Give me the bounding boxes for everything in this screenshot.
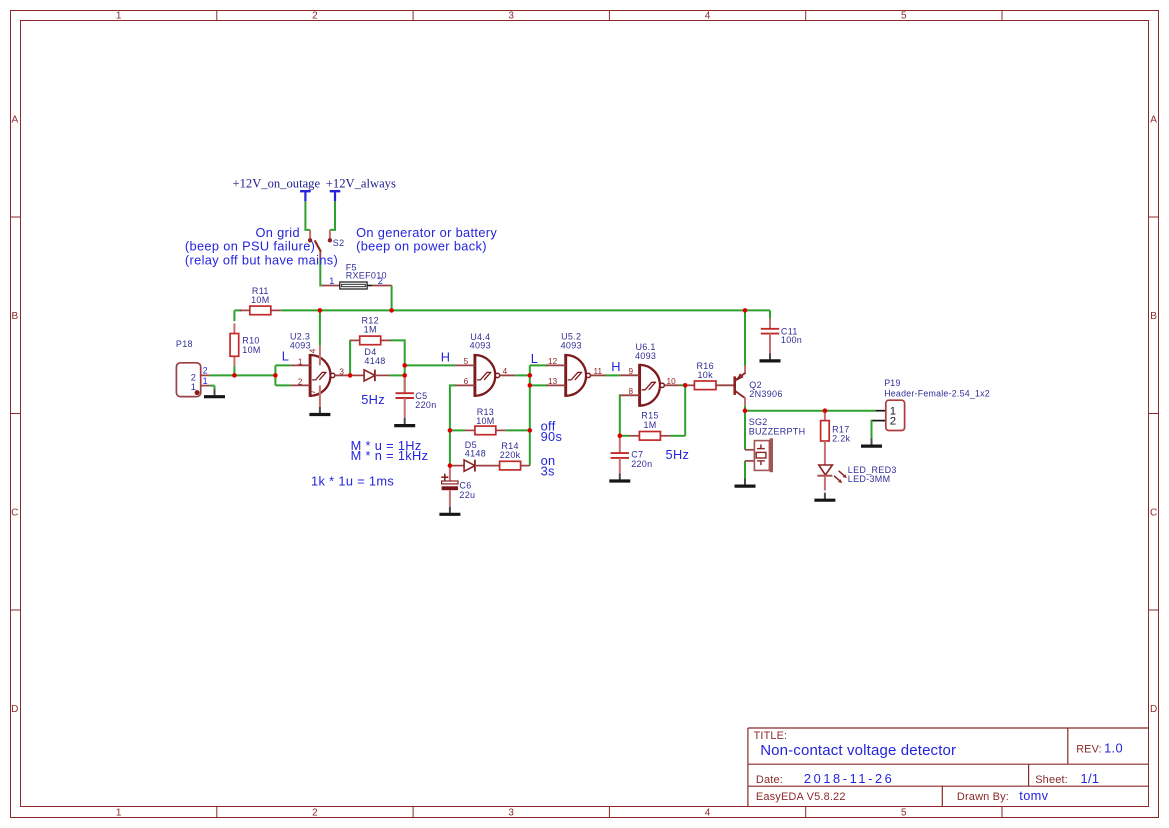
svg-text:3: 3 <box>508 11 514 22</box>
svg-text:2N3906: 2N3906 <box>749 389 782 399</box>
svg-text:4: 4 <box>705 808 711 819</box>
svg-text:3: 3 <box>339 367 344 376</box>
svg-text:10k: 10k <box>697 370 713 380</box>
svg-text:D: D <box>11 704 18 715</box>
svg-text:+12V_on_outage: +12V_on_outage <box>233 176 321 190</box>
svg-text:4093: 4093 <box>635 351 656 361</box>
svg-text:+12V_always: +12V_always <box>326 176 396 190</box>
svg-text:5: 5 <box>901 808 907 819</box>
svg-text:1.0: 1.0 <box>1104 740 1123 755</box>
svg-text:5Hz: 5Hz <box>666 447 690 462</box>
svg-text:220n: 220n <box>415 400 436 410</box>
svg-text:SG2: SG2 <box>749 417 768 427</box>
svg-text:13: 13 <box>548 377 558 386</box>
svg-text:A: A <box>1150 114 1157 125</box>
svg-text:Non-contact voltage detector: Non-contact voltage detector <box>760 742 956 759</box>
svg-text:2: 2 <box>312 808 318 819</box>
svg-text:1: 1 <box>116 808 122 819</box>
svg-text:5: 5 <box>901 11 907 22</box>
svg-text:H: H <box>441 349 451 364</box>
svg-text:10M: 10M <box>476 416 494 426</box>
svg-text:1k * 1u = 1ms: 1k * 1u = 1ms <box>311 473 394 488</box>
svg-text:4: 4 <box>503 367 508 376</box>
svg-text:A: A <box>11 114 18 125</box>
svg-text:P18: P18 <box>176 339 193 349</box>
svg-text:4: 4 <box>705 11 711 22</box>
svg-text:5Hz: 5Hz <box>361 392 385 407</box>
svg-text:220n: 220n <box>631 459 652 469</box>
svg-text:Sheet:: Sheet: <box>1035 774 1068 786</box>
svg-text:9: 9 <box>629 367 634 376</box>
svg-text:BUZZERPTH: BUZZERPTH <box>749 427 806 437</box>
svg-text:22u: 22u <box>459 490 475 500</box>
svg-text:1/1: 1/1 <box>1081 771 1100 786</box>
svg-text:(beep on power back): (beep on power back) <box>356 238 487 253</box>
svg-text:2.2k: 2.2k <box>832 434 850 444</box>
svg-text:(relay off but have mains): (relay off but have mains) <box>185 252 338 267</box>
svg-text:11: 11 <box>594 367 603 376</box>
svg-text:B: B <box>1150 311 1157 322</box>
svg-text:P19: P19 <box>884 378 900 388</box>
svg-text:Date:: Date: <box>756 774 783 786</box>
svg-text:10M: 10M <box>251 295 269 305</box>
svg-text:4148: 4148 <box>364 356 385 366</box>
svg-text:1: 1 <box>329 276 334 286</box>
svg-text:2018-11-26: 2018-11-26 <box>804 771 895 786</box>
svg-text:2: 2 <box>890 415 896 427</box>
svg-text:4093: 4093 <box>470 341 491 351</box>
svg-text:1M: 1M <box>364 325 377 335</box>
svg-text:1M: 1M <box>643 420 656 430</box>
svg-text:2: 2 <box>312 11 318 22</box>
svg-text:220k: 220k <box>500 450 521 460</box>
svg-text:1: 1 <box>298 357 303 366</box>
svg-text:6: 6 <box>464 377 469 386</box>
svg-text:LED-3MM: LED-3MM <box>848 474 891 484</box>
svg-text:10M: 10M <box>242 345 260 355</box>
svg-text:12: 12 <box>548 357 558 366</box>
svg-text:C: C <box>1150 507 1157 518</box>
svg-text:L: L <box>531 351 538 366</box>
svg-text:5: 5 <box>464 357 469 366</box>
svg-text:4: 4 <box>309 348 318 353</box>
svg-text:TITLE:: TITLE: <box>754 730 788 742</box>
svg-text:EasyEDA V5.8.22: EasyEDA V5.8.22 <box>756 791 846 803</box>
svg-text:2: 2 <box>298 377 303 386</box>
svg-text:H: H <box>611 359 621 374</box>
svg-text:10: 10 <box>667 377 677 386</box>
svg-text:1: 1 <box>116 11 122 22</box>
svg-text:2: 2 <box>378 276 383 286</box>
svg-text:1: 1 <box>203 376 208 386</box>
svg-text:L: L <box>282 348 289 363</box>
svg-text:3s: 3s <box>541 464 555 479</box>
svg-text:4093: 4093 <box>561 340 582 350</box>
svg-text:8: 8 <box>629 387 634 396</box>
svg-text:7: 7 <box>308 389 317 394</box>
svg-text:C: C <box>11 507 18 518</box>
svg-text:REV:: REV: <box>1076 743 1102 755</box>
svg-text:1: 1 <box>191 382 196 392</box>
svg-text:M * n = 1kHz: M * n = 1kHz <box>351 448 429 463</box>
svg-text:(beep on PSU failure): (beep on PSU failure) <box>185 238 315 253</box>
svg-text:Drawn By:: Drawn By: <box>957 791 1009 803</box>
svg-text:100n: 100n <box>781 335 802 345</box>
svg-text:Header-Female-2.54_1x2: Header-Female-2.54_1x2 <box>884 388 990 398</box>
svg-text:tomv: tomv <box>1019 788 1048 803</box>
svg-text:4148: 4148 <box>465 449 486 459</box>
svg-text:D: D <box>1150 704 1157 715</box>
svg-text:90s: 90s <box>541 429 563 444</box>
svg-text:S2: S2 <box>333 238 345 248</box>
svg-text:2: 2 <box>203 366 208 376</box>
svg-text:B: B <box>11 311 18 322</box>
svg-text:3: 3 <box>508 808 514 819</box>
